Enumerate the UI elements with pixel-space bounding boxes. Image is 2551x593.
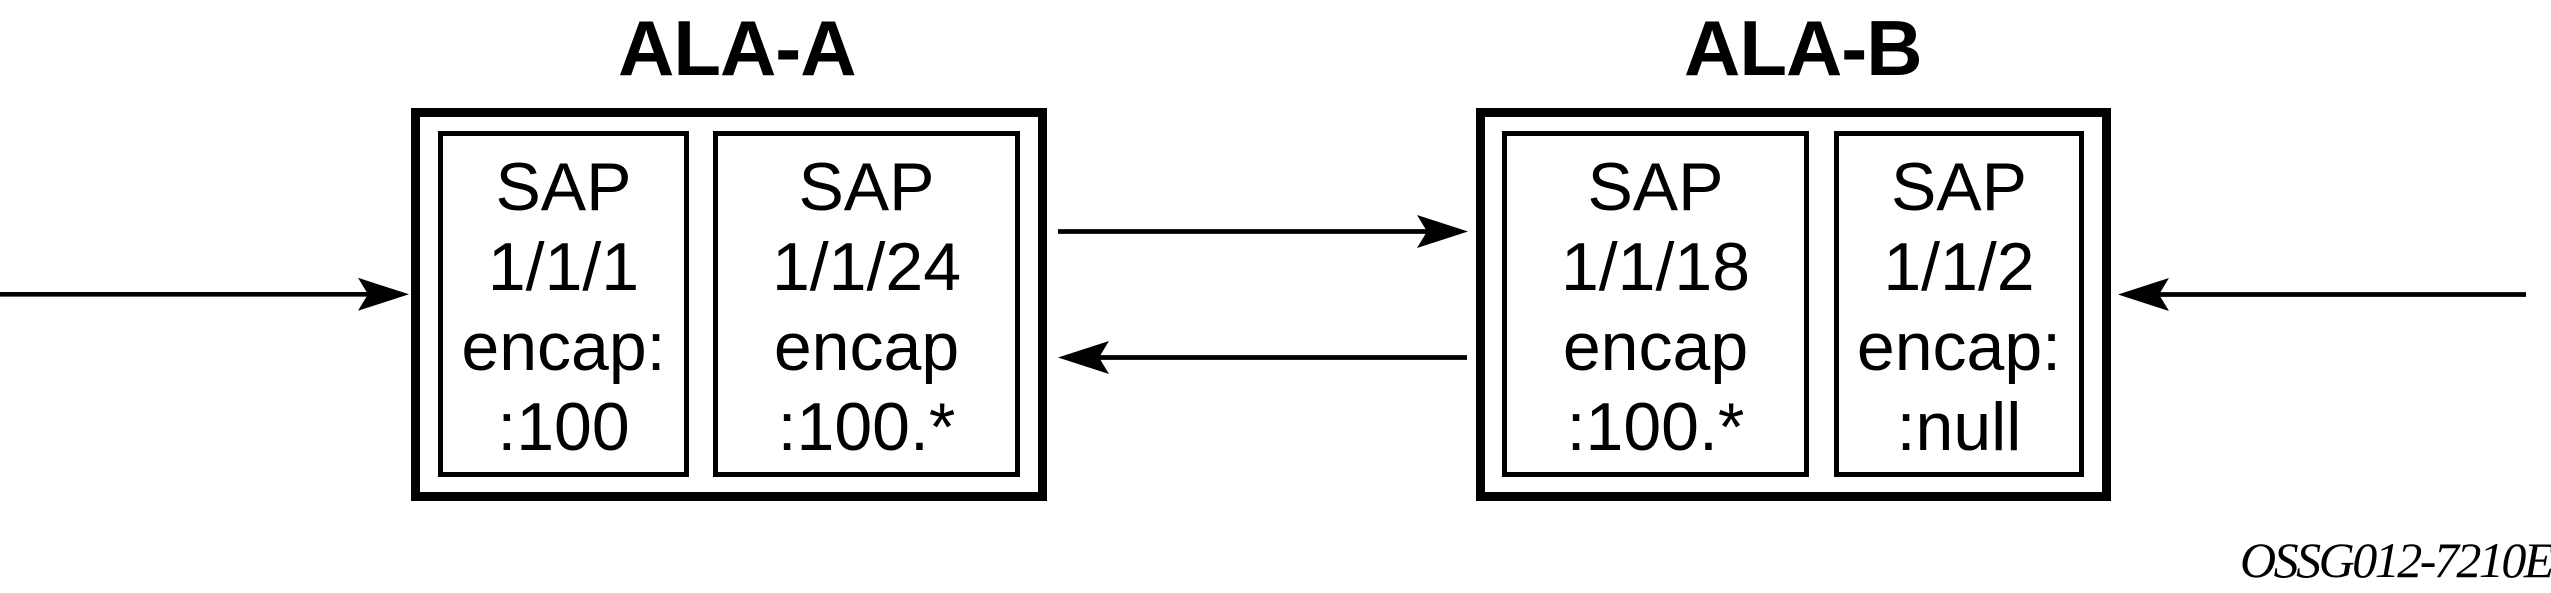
node ALA-A title — [618, 9, 856, 87]
wire: right ingress line into ALA-B — [2150, 292, 2526, 297]
wire: ALA-A to ALA-B line — [1058, 229, 1436, 234]
arrowhead: right ingress into ALA-B — [2118, 278, 2169, 311]
node SAP 1/1/2 box — [1834, 131, 2084, 477]
arrowhead: left ingress into ALA-A — [358, 278, 409, 311]
node ALA-A box — [411, 108, 1047, 501]
node SAP 1/1/1 box — [438, 131, 689, 477]
wire: left ingress line into ALA-A — [0, 292, 377, 297]
caption OSSG012-7210E — [2240, 535, 2551, 585]
node ALA-B box — [1476, 108, 2111, 501]
arrowhead: ALA-A to ALA-B — [1417, 215, 1468, 248]
node ALA-B title — [1684, 9, 1922, 87]
arrowhead: ALA-B to ALA-A — [1058, 341, 1109, 374]
node SAP 1/1/18 box — [1502, 131, 1809, 477]
wire: ALA-B to ALA-A line — [1090, 355, 1467, 360]
node SAP 1/1/24 box — [713, 131, 1020, 477]
